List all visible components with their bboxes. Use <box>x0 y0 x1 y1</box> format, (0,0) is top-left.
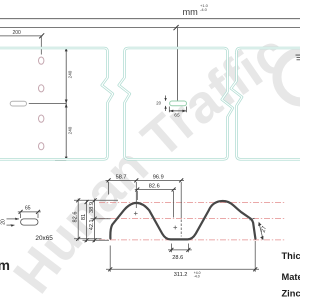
bolt hole 2 <box>39 85 44 92</box>
svg-text:-4.0: -4.0 <box>200 7 208 12</box>
svg-text:Thickness: Thickness <box>282 251 301 261</box>
svg-text:240: 240 <box>68 126 73 134</box>
svg-text:Material: Material <box>282 272 301 282</box>
red centerline bottom <box>99 239 286 241</box>
svg-text:20: 20 <box>156 100 161 105</box>
red centerline top <box>99 202 286 204</box>
center mark hump1 <box>134 212 138 216</box>
svg-text:28.6: 28.6 <box>172 255 183 261</box>
top dim row 1 (58.7 / 96.9) <box>106 180 185 236</box>
left vertical dim 38.9 / 42.1 <box>91 199 111 243</box>
guardrail panel right piece <box>231 48 310 159</box>
svg-text:mm: mm <box>183 7 199 17</box>
svg-text:311.2: 311.2 <box>174 272 188 278</box>
svg-text:20: 20 <box>1 219 7 225</box>
watermark swoosh <box>277 52 302 102</box>
guardrail panel middle piece <box>119 48 233 159</box>
tick on dimension line 2 <box>174 25 179 30</box>
wire: center leader to middle slot <box>176 28 178 101</box>
center mark valley <box>173 226 177 230</box>
bolt hole 4 <box>39 143 44 150</box>
splice slot left <box>10 101 26 106</box>
svg-text:27: 27 <box>261 226 268 234</box>
svg-text:mm: mm <box>0 257 10 273</box>
wire: overall dimension line 2 <box>0 27 300 29</box>
dimension 200 <box>0 30 44 55</box>
svg-text:81: 81 <box>81 214 87 220</box>
svg-text:38.9: 38.9 <box>89 202 95 213</box>
wire: overall dimension line 1 <box>0 18 300 20</box>
left vertical dim 81 <box>83 201 110 243</box>
svg-text:42.1: 42.1 <box>89 219 95 230</box>
svg-text:65: 65 <box>25 205 31 211</box>
middle slot width dim 65 <box>169 107 186 113</box>
bolt hole 1 <box>39 57 44 64</box>
dim 27 (end lip) <box>250 218 269 240</box>
red centerline middle <box>99 218 286 220</box>
left vertical dim 82.6 <box>74 199 118 241</box>
mm tolerance label <box>183 3 209 17</box>
W-beam profile <box>110 201 255 239</box>
dimension 240 vertical chain <box>29 48 66 161</box>
svg-text:240: 240 <box>68 70 73 78</box>
dim 28.6 <box>168 244 192 253</box>
slot detail 20x65 <box>21 219 38 225</box>
bolt hole 3 <box>39 115 44 122</box>
top dim row 2 (82.6) <box>135 190 176 218</box>
slot detail dim 65 <box>18 212 41 218</box>
svg-text:82.6: 82.6 <box>73 212 79 223</box>
guardrail panel left piece <box>0 48 113 159</box>
svg-text:82.6: 82.6 <box>149 184 160 190</box>
svg-text:Zinc: Zinc <box>282 288 301 298</box>
svg-text:20x65: 20x65 <box>35 235 53 242</box>
middle slot <box>170 101 187 106</box>
middle slot height dim <box>165 96 167 112</box>
svg-text:58.7: 58.7 <box>116 174 127 180</box>
svg-text:96.9: 96.9 <box>153 174 164 180</box>
svg-text:65: 65 <box>174 112 180 118</box>
cropped tiny label right edge <box>296 55 301 61</box>
svg-text:200: 200 <box>13 30 22 36</box>
slot detail dim 20 <box>7 219 20 225</box>
svg-text:-4.0: -4.0 <box>194 275 200 279</box>
dim 311.2 <box>106 241 259 272</box>
